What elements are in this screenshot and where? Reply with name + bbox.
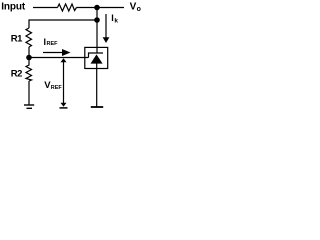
arrow IREF current annotation xyxy=(43,49,71,56)
svg-text:REF: REF xyxy=(51,85,63,91)
resistor R (series input resistor) xyxy=(58,4,77,11)
node A junction dot top xyxy=(94,5,100,11)
wire R1 bottom to ref node xyxy=(28,47,30,58)
resistor R2 xyxy=(26,58,32,82)
label VREF xyxy=(44,80,62,91)
label Ik xyxy=(111,13,118,24)
zener diode inside U1 : anode triangle xyxy=(91,54,103,63)
svg-text:V: V xyxy=(130,1,137,12)
svg-text:o: o xyxy=(137,6,141,13)
svg-text:Input: Input xyxy=(1,1,26,12)
label IREF xyxy=(44,37,59,47)
svg-text:R1: R1 xyxy=(11,33,23,44)
ground right xyxy=(91,106,103,108)
resistor R1 xyxy=(26,28,32,47)
zener diode inside U1 : cathode bar xyxy=(89,53,104,58)
svg-text:k: k xyxy=(114,17,118,24)
op-amp U1 TL431 shunt regulator box xyxy=(85,47,108,68)
svg-text:R2: R2 xyxy=(11,68,22,79)
wire R2 bottom to ground xyxy=(28,81,30,105)
wire horizontal to R1 top xyxy=(29,20,97,28)
wire vertical from Vo node down to zener cathode xyxy=(96,8,98,54)
wire input to resistor xyxy=(33,7,58,9)
node B junction dot second xyxy=(94,17,100,23)
node REF junction dot xyxy=(26,55,32,61)
arrow VREF dimension (double headed) xyxy=(60,58,68,108)
svg-text:REF: REF xyxy=(47,41,59,47)
arrow Ik current annotation xyxy=(103,14,110,43)
ground left xyxy=(24,105,34,108)
wire resistor to Vo xyxy=(77,7,125,9)
wire ref node to TL431 ref pin xyxy=(29,57,89,59)
wire U1 anode to ground xyxy=(96,64,98,107)
